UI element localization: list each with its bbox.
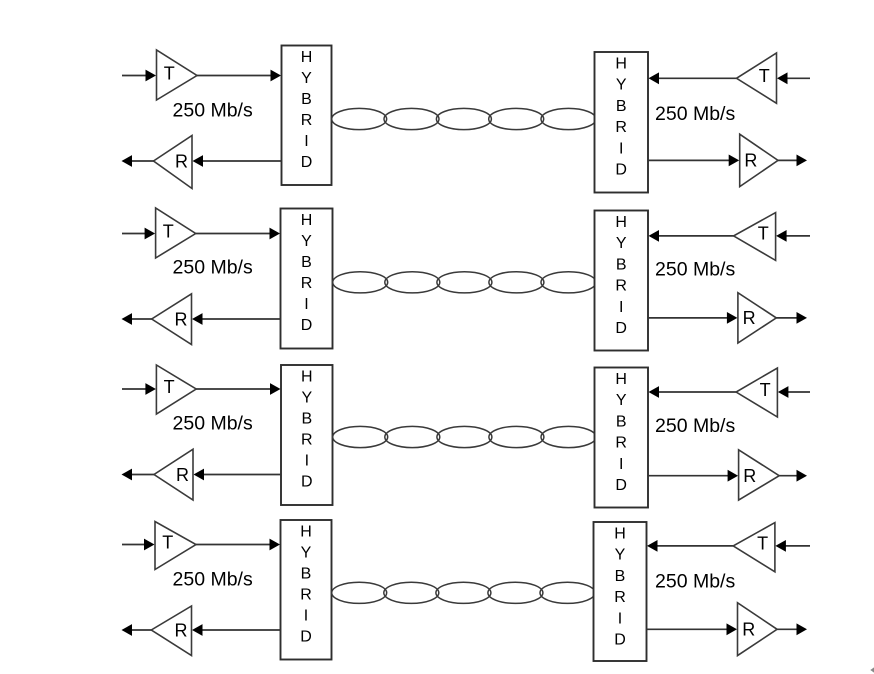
wire: T1b output to hybrid — [649, 72, 737, 84]
transmitter T3b — [736, 368, 777, 417]
wire: T2b output to hybrid — [649, 230, 734, 242]
svg-text:T: T — [162, 532, 173, 552]
svg-text:250 Mb/s: 250 Mb/s — [655, 259, 735, 281]
wire: R2a output — [122, 313, 152, 325]
svg-text:R: R — [175, 620, 188, 640]
wire: input to transmitter T4b — [775, 540, 810, 552]
hybrid box U4a — [281, 520, 332, 660]
wire: R3a output — [122, 469, 155, 481]
wire: input to transmitter T3a — [122, 383, 156, 395]
wire: hybrid to receiver R1a — [193, 155, 282, 167]
wire: T4b output to hybrid — [647, 540, 733, 552]
svg-text:250 Mb/s: 250 Mb/s — [173, 256, 253, 278]
receiver R2b — [738, 293, 776, 343]
twisted pair cable (row 4) — [332, 582, 595, 603]
svg-text:R: R — [742, 620, 755, 640]
transmitter T2a — [156, 208, 196, 258]
hybrid box U3a — [281, 365, 333, 505]
wire: T2a output to hybrid — [196, 228, 280, 240]
svg-text:T: T — [760, 380, 771, 400]
wire: hybrid to receiver R1b — [648, 155, 739, 167]
svg-text:R: R — [175, 151, 188, 171]
wire: input to transmitter T1a — [122, 70, 156, 82]
wire: R1a output — [122, 155, 154, 167]
receiver R3a — [154, 449, 193, 500]
wire: R4a output — [122, 624, 152, 636]
hybrid box U2b — [595, 211, 649, 351]
svg-text:R: R — [175, 309, 188, 329]
transmitter T1a — [157, 50, 198, 100]
hybrid box U1a — [282, 46, 332, 186]
svg-text:T: T — [757, 534, 768, 554]
hybrid box U3b — [595, 368, 649, 508]
svg-text:T: T — [164, 377, 175, 397]
wire: hybrid to receiver R4b — [647, 623, 738, 635]
hybrid box U2a — [281, 209, 333, 349]
receiver R2a — [152, 294, 192, 345]
wire: hybrid to receiver R4a — [192, 624, 281, 636]
wire: R3b output — [779, 470, 807, 482]
transmitter T1b — [737, 53, 777, 103]
svg-text:R: R — [743, 308, 756, 328]
svg-text:R: R — [744, 151, 757, 171]
transmitter T3a — [156, 365, 196, 414]
svg-text:250 Mb/s: 250 Mb/s — [173, 569, 253, 591]
svg-text:T: T — [759, 66, 770, 86]
transmitter T2b — [734, 213, 776, 261]
twisted pair cable (row 2) — [333, 272, 596, 293]
svg-text:250 Mb/s: 250 Mb/s — [173, 413, 253, 435]
wire: R2b output — [776, 312, 807, 324]
wire: hybrid to receiver R2a — [192, 313, 281, 325]
twisted pair cable (row 1) — [332, 108, 596, 129]
transmitter T4b — [733, 523, 775, 572]
svg-text:R: R — [743, 466, 756, 486]
wire: input to transmitter T1b — [777, 72, 810, 84]
svg-text:250 Mb/s: 250 Mb/s — [173, 99, 253, 121]
svg-text:R: R — [176, 465, 189, 485]
wire: R1b output — [778, 155, 807, 167]
receiver R1a — [154, 136, 193, 189]
wire: input to transmitter T2b — [776, 230, 810, 242]
wire: hybrid to receiver R3a — [194, 469, 282, 481]
wire: input to transmitter T2a — [122, 228, 155, 240]
hybrid box U4b — [594, 522, 647, 661]
wire: input to transmitter T3b — [778, 386, 810, 398]
hybrid box U1b — [595, 52, 649, 193]
wire: hybrid to receiver R3b — [648, 470, 738, 482]
svg-text:250 Mb/s: 250 Mb/s — [655, 103, 735, 125]
wire: T3b output to hybrid — [649, 386, 737, 398]
transmitter T4a — [155, 522, 196, 570]
wire: T4a output to hybrid — [196, 539, 280, 551]
receiver R3b — [739, 450, 780, 500]
page corner marker (gray arrowhead, bottom-right) — [870, 667, 874, 673]
svg-text:250 Mb/s: 250 Mb/s — [655, 415, 735, 437]
wire: hybrid to receiver R2b — [648, 312, 737, 324]
receiver R1b — [740, 134, 778, 186]
svg-text:T: T — [758, 224, 769, 244]
svg-text:T: T — [163, 221, 174, 241]
receiver R4b — [738, 603, 778, 656]
receiver R4a — [151, 606, 191, 656]
twisted pair cable (row 3) — [333, 426, 596, 447]
wire: input to transmitter T4a — [122, 539, 155, 551]
wire: T1a output to hybrid — [197, 70, 281, 82]
svg-text:T: T — [164, 63, 175, 83]
wire: T3a output to hybrid — [196, 383, 280, 395]
wire: R4b output — [777, 623, 807, 635]
svg-text:250 Mb/s: 250 Mb/s — [655, 570, 735, 592]
